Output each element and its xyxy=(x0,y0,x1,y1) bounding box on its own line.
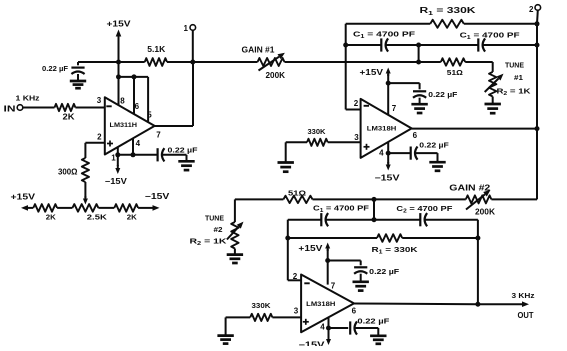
potentiometer GAIN #1 200K xyxy=(258,58,285,66)
wire R1 to right osc2 xyxy=(402,237,478,239)
wire pin4 to cap osc1 xyxy=(388,152,411,154)
junction node1 xyxy=(190,60,195,65)
wire gain2 junction down xyxy=(373,199,375,219)
wire pin2 xyxy=(85,142,104,144)
svg-text:5: 5 xyxy=(147,111,152,120)
ground tune2 xyxy=(227,253,243,256)
wire tune1 to gnd xyxy=(492,97,494,104)
junction pin8 xyxy=(116,74,121,79)
junction out line xyxy=(475,302,480,307)
svg-text:IN: IN xyxy=(4,105,16,114)
capacitor 0.22uF input bypass xyxy=(77,62,79,65)
svg-text:6: 6 xyxy=(135,102,140,111)
svg-text:2K: 2K xyxy=(46,213,57,222)
junction +15V osc1 xyxy=(386,81,391,86)
capacitor 0.22uF osc2 pin4 xyxy=(349,321,351,334)
wire R1 line osc1 xyxy=(346,23,431,25)
wire pin3 osc1 xyxy=(286,141,307,143)
svg-text:OUT: OUT xyxy=(518,311,534,320)
junction rail out xyxy=(535,126,540,131)
wire cap line osc2 xyxy=(288,219,322,221)
ground osc2 pin4 xyxy=(370,334,386,337)
wire osc1 input up xyxy=(418,45,420,62)
wire 330K to pin3 xyxy=(328,141,361,143)
svg-text:−15V: −15V xyxy=(375,174,401,183)
pin 4 stub osc1 xyxy=(387,142,389,153)
offset pot line left arrow - xyxy=(28,207,33,209)
junction +15V osc2 xyxy=(325,258,330,263)
junction +15V xyxy=(116,60,121,65)
op-amp U2 LM318H xyxy=(361,99,412,158)
svg-text:LM318H: LM318H xyxy=(306,301,335,308)
capacitor C1 osc2 xyxy=(320,213,322,226)
svg-text:6: 6 xyxy=(352,307,357,316)
node 1 terminal xyxy=(190,25,196,31)
svg-text:+15V: +15V xyxy=(11,193,36,202)
junction cap mid osc2 xyxy=(372,217,377,222)
junction R1 left osc2 xyxy=(285,236,290,241)
pin 8 6 5 bar xyxy=(118,62,120,77)
wire cap line osc1 xyxy=(346,44,382,46)
op-amp U3 LM318H xyxy=(301,275,354,333)
svg-text:0.22 µF: 0.22 µF xyxy=(168,145,198,154)
wire pot line a xyxy=(57,207,72,209)
plus input LM311 xyxy=(107,143,113,145)
resistor 5.1K xyxy=(145,58,167,66)
wire decouple osc2 xyxy=(328,260,361,262)
potentiometer 2.5K xyxy=(72,204,98,212)
resistor 51ohm osc1 xyxy=(441,58,465,65)
junction pin6 xyxy=(132,74,137,79)
ground 330K osc1 xyxy=(278,161,294,164)
pin 6 stub xyxy=(133,77,135,114)
wire 330K to gnd osc2 xyxy=(225,317,227,334)
ground LM311 cap xyxy=(178,160,194,163)
pin 8 stub xyxy=(118,77,120,105)
svg-text:51Ω: 51Ω xyxy=(288,189,306,198)
op-amp U1 LM311H xyxy=(105,97,155,154)
wire rail to gain2 xyxy=(491,198,537,200)
wire osc2 output xyxy=(354,303,478,306)
right rail osc1 xyxy=(536,24,538,200)
svg-text:0.22 µF: 0.22 µF xyxy=(42,64,68,73)
svg-text:2: 2 xyxy=(293,272,298,281)
svg-text:200K: 200K xyxy=(475,208,495,217)
svg-text:330K: 330K xyxy=(308,127,327,136)
svg-text:8: 8 xyxy=(120,97,125,106)
svg-text:330K: 330K xyxy=(252,301,272,310)
svg-text:0.22 µF: 0.22 µF xyxy=(357,317,390,326)
wire 300ohm to wiper xyxy=(84,182,86,198)
wire cap to gnd osc2 pin4 xyxy=(355,327,378,329)
svg-text:0.22 µF: 0.22 µF xyxy=(428,90,457,99)
wire 5.1K to node 1 xyxy=(167,61,258,63)
pin 1 stub xyxy=(117,147,119,155)
junction rail R1 xyxy=(535,21,540,26)
svg-text:4: 4 xyxy=(320,323,325,332)
wire osc1 inverting xyxy=(345,24,347,110)
wire gain2 to junction xyxy=(313,198,466,200)
wire pin1 to cap xyxy=(118,154,158,156)
svg-text:LM318H: LM318H xyxy=(367,126,397,133)
potentiometer TUNE #2 1K xyxy=(231,222,238,249)
resistor 2K left xyxy=(33,204,57,212)
capacitor 0.22uF LM311 out xyxy=(157,148,159,161)
potentiometer GAIN #2 200K xyxy=(466,195,492,203)
svg-text:3: 3 xyxy=(97,96,102,105)
junction pin4 osc2 xyxy=(326,326,331,331)
capacitor 0.22uF osc1 pin4 xyxy=(410,147,412,160)
svg-text:5.1K: 5.1K xyxy=(147,45,165,54)
svg-text:51Ω: 51Ω xyxy=(447,68,463,77)
svg-text:−15V: −15V xyxy=(145,192,170,201)
resistor 2K right xyxy=(114,204,138,212)
resistor R1 330K osc2 xyxy=(377,234,402,242)
wire tune2 to gnd xyxy=(234,249,236,255)
svg-text:TUNE: TUNE xyxy=(505,61,524,70)
capacitor C2 osc2 xyxy=(419,213,421,226)
power +15V osc1 xyxy=(387,74,389,77)
junction pin1 xyxy=(115,152,120,157)
svg-text:0.22 µF: 0.22 µF xyxy=(369,267,399,276)
ground 330K osc2 xyxy=(217,334,233,337)
plus input osc1 xyxy=(364,146,370,148)
capacitor 0.22uF osc2 +15 xyxy=(354,266,367,268)
wire decouple osc1 xyxy=(388,82,419,84)
svg-text:3: 3 xyxy=(354,133,359,142)
wire pin7 output xyxy=(155,125,194,127)
junction cap line mid xyxy=(416,43,421,48)
wire 51ohm to tune1 xyxy=(465,61,493,63)
capacitor C1 osc1 left xyxy=(380,38,382,51)
wire pin4 -15V osc1 xyxy=(387,153,389,163)
junction cap line right xyxy=(535,43,540,48)
svg-text:1: 1 xyxy=(184,24,189,33)
wire pin4 to cap osc2 xyxy=(329,327,349,329)
potentiometer TUNE #1 R2 1K xyxy=(489,72,496,97)
svg-text:7: 7 xyxy=(156,131,161,140)
svg-text:0.22 µF: 0.22 µF xyxy=(419,141,449,150)
svg-text:2K: 2K xyxy=(127,213,138,222)
junction pin4 osc1 xyxy=(386,151,391,156)
svg-text:−15V: −15V xyxy=(299,341,326,347)
svg-text:−15V: −15V xyxy=(105,177,128,186)
output arrow 3KHz xyxy=(478,303,522,305)
wire osc2 out rail xyxy=(477,220,479,305)
svg-text:300Ω: 300Ω xyxy=(58,168,78,177)
svg-text:2: 2 xyxy=(97,132,102,141)
junction osc1 input xyxy=(416,60,421,65)
svg-text:4: 4 xyxy=(136,139,141,148)
resistor 300ohm xyxy=(82,158,89,182)
wire 330K to gnd xyxy=(285,142,287,162)
plus input osc2 xyxy=(303,321,309,323)
svg-text:GAIN #2: GAIN #2 xyxy=(449,184,491,193)
capacitor 0.22uF osc1 +15 xyxy=(413,90,426,92)
node 2 terminal xyxy=(535,5,541,11)
svg-text:1 KHz: 1 KHz xyxy=(16,94,40,103)
resistor 51ohm osc2 xyxy=(283,196,312,203)
wiper arrow onto 2.5K xyxy=(84,196,86,199)
ground osc1 +15 xyxy=(411,103,427,106)
svg-text:GAIN #1: GAIN #1 xyxy=(242,46,276,55)
wire 51ohm to tune2 xyxy=(235,198,284,200)
wire osc2 inverting xyxy=(287,220,289,281)
junction cap line left xyxy=(343,43,348,48)
wire 330K to pin3 osc2 xyxy=(272,316,301,318)
svg-text:2: 2 xyxy=(529,5,534,14)
junction R1 right osc2 xyxy=(475,236,480,241)
wire 2K to pin3 xyxy=(75,107,104,109)
svg-text:3 KHz: 3 KHz xyxy=(512,291,535,300)
wire +15V rail to 5.1K node xyxy=(78,61,145,63)
power +15V supply LM311 xyxy=(118,37,120,49)
wire R1 line osc2 xyxy=(288,237,377,239)
svg-text:#1: #1 xyxy=(514,73,523,82)
junction gain2 caps xyxy=(372,197,377,202)
power +15V osc2 xyxy=(327,249,329,252)
svg-text:2.5K: 2.5K xyxy=(87,213,108,222)
resistor R1 330K osc1 xyxy=(430,20,464,28)
wire pin4 -15V osc2 xyxy=(328,328,330,339)
svg-text:TUNE: TUNE xyxy=(205,214,224,223)
wire R1 to rail xyxy=(464,23,537,25)
ground osc1 pin4 xyxy=(429,161,445,164)
svg-text:+15V: +15V xyxy=(107,20,132,29)
wire cap to gnd osc1 pin4 xyxy=(416,152,438,154)
minus input osc1 xyxy=(364,105,369,107)
resistor 330K osc2 xyxy=(250,314,272,321)
svg-text:2: 2 xyxy=(354,99,359,108)
wire osc1 output xyxy=(412,128,537,130)
resistor 330K osc1 xyxy=(307,139,328,146)
svg-text:6: 6 xyxy=(413,131,418,140)
pin 4 stub xyxy=(132,138,134,154)
svg-text:LM311H: LM311H xyxy=(110,122,138,129)
ground left bypass xyxy=(70,80,86,83)
svg-text:#2: #2 xyxy=(214,225,223,234)
svg-text:3: 3 xyxy=(294,307,299,316)
ground osc2 +15 xyxy=(353,280,369,283)
wire gain1 to osc1 junction xyxy=(285,61,419,63)
junction pin4 xyxy=(131,152,136,157)
capacitor C1 osc1 right xyxy=(477,38,479,51)
wire IN to 2K xyxy=(23,107,55,109)
offset pot line right arrow xyxy=(138,207,152,209)
wire cap to ground xyxy=(162,154,186,156)
minus input LM311 xyxy=(106,105,111,107)
wire pin1 down -15V xyxy=(117,155,119,166)
resistor 2K input xyxy=(55,104,76,111)
terminal IN xyxy=(17,105,23,111)
svg-text:2K: 2K xyxy=(63,113,75,122)
wire pot line b xyxy=(98,207,114,209)
svg-text:7: 7 xyxy=(331,282,336,291)
wire pin3 osc2 xyxy=(226,316,251,318)
svg-text:200K: 200K xyxy=(266,71,286,80)
svg-text:7: 7 xyxy=(392,104,397,113)
wire junction to 51ohm xyxy=(419,61,441,63)
svg-text:+15V: +15V xyxy=(298,244,323,253)
svg-text:+15V: +15V xyxy=(360,68,384,77)
ground tune1 xyxy=(485,103,501,106)
minus input osc2 xyxy=(304,282,309,284)
svg-text:4: 4 xyxy=(379,149,384,158)
pin 4 stub osc2 xyxy=(328,317,330,328)
